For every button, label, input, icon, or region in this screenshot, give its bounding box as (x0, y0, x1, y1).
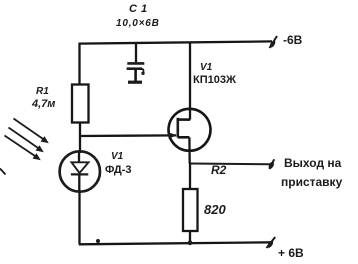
resistor R2 (183, 189, 198, 231)
wire source vertical (188, 137, 191, 163)
wire photodiode to bottom rail (78, 192, 80, 245)
svg-text:-6В: -6В (283, 33, 303, 47)
resistor R1 (72, 85, 89, 123)
svg-text:820: 820 (204, 202, 226, 217)
svg-text:С1: С1 (129, 3, 151, 15)
photodiode V1 FD-3 (60, 151, 100, 191)
terminal -6V (269, 36, 277, 49)
svg-text:R2: R2 (211, 163, 227, 177)
svg-text:приставку: приставку (281, 175, 343, 189)
wire R1 to photodiode (79, 123, 81, 154)
light arrow 1 (14, 119, 49, 144)
svg-text:КП103Ж: КП103Ж (193, 74, 236, 86)
svg-text:+ 6В: + 6В (278, 246, 304, 260)
svg-text:ФД-3: ФД-3 (105, 164, 131, 176)
junction dot bottom (188, 240, 193, 245)
svg-text:Выход на: Выход на (284, 156, 342, 170)
wire bottom rail (79, 242, 273, 244)
junction dot (96, 239, 100, 243)
wire output line (190, 159, 275, 169)
wire left vertical upper (78, 43, 80, 86)
capacitor C1 (127, 44, 145, 83)
wire top rail (79, 41, 272, 43)
wire gate line (80, 134, 176, 137)
terminal +6V (266, 237, 275, 249)
svg-text:V1: V1 (200, 62, 213, 73)
svg-text:V1: V1 (111, 151, 124, 162)
light arrow 3 (5, 136, 41, 161)
wire R2 to bottom rail (189, 231, 191, 244)
wire drain vertical (189, 43, 191, 120)
wire output junction to R2 (189, 164, 191, 190)
transistor V1 KP103Zh (169, 109, 211, 151)
svg-text:4,7м: 4,7м (31, 98, 55, 110)
light arrow 4 partial (0, 169, 6, 175)
svg-text:R1: R1 (36, 86, 49, 97)
svg-text:10,0×6В: 10,0×6В (116, 18, 160, 29)
light arrow 2 (9, 128, 44, 153)
